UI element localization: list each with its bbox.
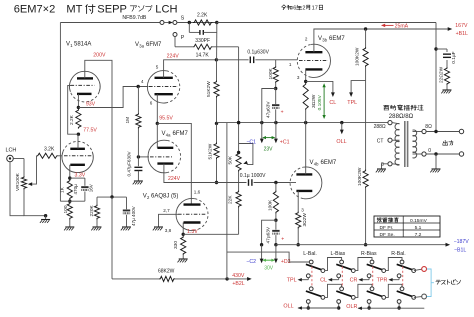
switch S3b contact R — [382, 296, 386, 300]
node C2 right rail junction — [274, 243, 277, 246]
input jack — [7, 155, 14, 162]
ground secondary — [430, 154, 440, 172]
ground VR — [40, 216, 50, 223]
wire bottom rail — [276, 244, 446, 246]
svg-text:51K2W: 51K2W — [207, 143, 213, 159]
cathode bar V2 — [184, 221, 201, 223]
node B+ 100K2W junction — [364, 27, 367, 30]
node V3b cathode junction — [304, 80, 307, 83]
C1 stub left — [260, 123, 264, 144]
svg-text:470µ: 470µ — [73, 184, 78, 195]
wire V4a plate up — [156, 123, 158, 147]
wire cathode node right (to V3a grid) — [78, 87, 148, 108]
grid V1 lower — [64, 155, 92, 157]
svg-text:430V: 430V — [232, 273, 245, 279]
plate bar V3a — [155, 77, 173, 79]
svg-text:8Ω: 8Ω — [425, 124, 432, 130]
svg-text:14.7K: 14.7K — [196, 53, 210, 59]
label 470u — [73, 184, 78, 195]
node secondary gnd junction — [434, 152, 437, 155]
svg-text:OLL: OLL — [336, 139, 346, 145]
switch S1b contact R — [321, 296, 325, 300]
wire B2 feed — [112, 197, 159, 279]
label -C2 — [246, 259, 256, 265]
switch S3a contact R — [382, 269, 386, 273]
svg-text:93V: 93V — [86, 101, 96, 107]
svg-text:LCH: LCH — [155, 3, 177, 15]
wire 8ohm to terminal — [426, 131, 459, 133]
svg-text:47µ 400V: 47µ 400V — [131, 205, 136, 226]
primary terminal CT — [388, 138, 400, 142]
svg-text:TPL: TPL — [347, 100, 357, 106]
svg-text:220K: 220K — [89, 204, 95, 216]
green arrow 30V — [262, 259, 275, 262]
label 0.105V — [317, 94, 323, 110]
switch S1a lever — [306, 264, 322, 270]
wire C1 L-wire — [262, 89, 276, 123]
switch S1b contact L — [309, 287, 313, 291]
svg-text:−C1: −C1 — [246, 139, 256, 145]
svg-text:22Ω2W: 22Ω2W — [439, 66, 445, 83]
table row2 — [380, 225, 422, 231]
label +B1L top — [456, 31, 468, 37]
wire test TPR — [392, 278, 400, 280]
label + cap2 — [281, 236, 284, 242]
gang dash col2 — [341, 267, 343, 289]
label CR — [350, 278, 358, 284]
C2 stub right — [274, 245, 278, 264]
wire V1u plate to 200V — [85, 60, 112, 197]
node NFB takeoff — [434, 130, 437, 133]
wire V4a cathode down to 224V line — [164, 164, 217, 183]
svg-text:77.5V: 77.5V — [83, 127, 97, 133]
node P-line rail junction — [237, 121, 240, 124]
label L-Bal. — [303, 251, 317, 257]
grid V4a — [150, 156, 172, 158]
label OLR — [346, 304, 357, 310]
output terminal lower — [459, 152, 463, 156]
wire V2 cathode down — [182, 223, 184, 235]
label 224V (V4a) — [168, 176, 181, 182]
switch S2 bottom contact — [337, 300, 341, 304]
table row1 — [377, 217, 427, 223]
svg-text:2.2K: 2.2K — [197, 12, 208, 18]
wire 100K2W mid — [365, 81, 367, 170]
NFB arrow — [169, 21, 173, 25]
label test pin — [436, 280, 461, 285]
resistor 2.2K (V1 cathode) — [69, 109, 81, 129]
svg-text:3: 3 — [297, 75, 300, 80]
wire bottom stem col1 — [307, 303, 309, 308]
ground 330 — [178, 255, 188, 262]
svg-text:0.105V: 0.105V — [317, 94, 323, 110]
svg-text:TPR: TPR — [377, 278, 388, 284]
wire NFB bus bottom — [60, 23, 85, 202]
wire cathode line right — [183, 233, 238, 235]
pin 5 V3a — [156, 64, 159, 69]
svg-text:P: P — [181, 35, 185, 41]
node NFB jack circle 1 — [160, 21, 164, 25]
resistor 100K2W lower — [357, 167, 368, 245]
wire S1b to S2b — [325, 284, 342, 297]
wire S3a to S4a — [386, 258, 402, 271]
tube V3a 6FM7 — [147, 71, 179, 103]
50K wiper — [239, 144, 253, 165]
switch S2 common contact — [337, 274, 341, 278]
node 1K bottom junction — [68, 200, 71, 203]
svg-text:2,7: 2,7 — [163, 208, 170, 213]
node C2 left rail junction — [260, 243, 263, 246]
svg-text:+B1L: +B1L — [456, 31, 468, 37]
gang dash col1 — [311, 267, 313, 289]
node VR ground junction — [44, 214, 47, 217]
tube V4a 6FM7 — [148, 140, 181, 173]
wire P to 14.7K — [175, 37, 193, 47]
wire 224V node to cap — [216, 59, 248, 61]
label primary 0 — [381, 162, 384, 168]
label -C1 — [246, 139, 256, 145]
label + cap1 — [281, 110, 284, 116]
capacitor 0.47uF630V — [134, 157, 142, 181]
node 95.5V midpoint — [156, 122, 159, 125]
svg-text:CT: CT — [377, 139, 384, 145]
capacitor 0.1u630V — [250, 57, 253, 64]
switch S2a contact R — [351, 269, 355, 273]
wire V1l plate up — [77, 134, 79, 149]
wire V4b cathode down — [297, 191, 299, 212]
title text — [14, 3, 178, 15]
label transformer note — [384, 105, 424, 111]
resistor 68K2W — [158, 269, 175, 282]
svg-text:5: 5 — [156, 64, 159, 69]
svg-text:6EM7×2: 6EM7×2 — [14, 3, 56, 15]
switch S3a contact L — [370, 260, 374, 264]
pin 6 V3a — [150, 100, 153, 105]
label OLL bottom — [283, 304, 293, 310]
label CT — [377, 139, 384, 145]
svg-text:0.1µF: 0.1µF — [451, 51, 457, 63]
plate bar V4b — [296, 173, 312, 175]
node rail x305 junction — [304, 121, 307, 124]
label V2 6AQ8J — [143, 194, 179, 201]
label output — [443, 140, 453, 145]
cathode bar V1 upper — [77, 93, 92, 95]
ground 0.47uF — [133, 181, 143, 184]
transformer secondary winding — [413, 130, 417, 158]
secondary 0 lead — [413, 153, 422, 155]
gang dash col4 — [402, 267, 404, 289]
wire 1M down to grid node — [137, 129, 139, 157]
svg-text:2: 2 — [302, 6, 305, 12]
wire 224V line right — [217, 182, 247, 184]
svg-text:50K: 50K — [228, 155, 234, 164]
secondary tap 0 — [422, 152, 426, 156]
svg-text:−C2: −C2 — [246, 259, 256, 265]
wire V4a grid left — [138, 156, 149, 158]
tube V3b 6EM7 — [297, 44, 330, 77]
node V4a grid junction — [137, 155, 140, 158]
pin 2 V3b — [305, 36, 308, 41]
svg-text:R-Bal.: R-Bal. — [391, 251, 405, 257]
capacitor 470u 16V — [81, 186, 88, 191]
svg-text:330: 330 — [173, 241, 179, 249]
pin 2,7 V2 — [163, 208, 170, 213]
svg-text:S: S — [181, 15, 185, 21]
label P — [181, 35, 185, 41]
wire parallel box left — [189, 23, 200, 33]
node bottom stem col2 — [337, 306, 340, 309]
resistor 14.7K — [193, 44, 213, 58]
svg-text:L-Bal.: L-Bal. — [303, 251, 317, 257]
ground zobel — [441, 90, 451, 93]
node V4b grid-leak junction — [274, 181, 277, 184]
svg-text:30V: 30V — [264, 266, 274, 272]
wire VR top lead — [23, 159, 25, 177]
wire OLL line — [298, 307, 339, 309]
table box — [374, 216, 440, 237]
TPL arrow — [349, 92, 353, 97]
label S — [181, 15, 185, 21]
switch S4a contact L — [400, 260, 404, 264]
primary terminal 288 — [388, 121, 400, 125]
capacitor 47u400V — [123, 197, 130, 226]
svg-text:224V: 224V — [167, 53, 180, 59]
plate bar V1 upper — [77, 77, 93, 79]
label R-Bal. — [391, 251, 405, 257]
svg-text:4b: 4b — [314, 162, 319, 167]
svg-text:SEPP: SEPP — [97, 3, 127, 15]
resistor 22K — [228, 191, 242, 208]
label +D2 — [281, 259, 291, 265]
svg-text:L-Bias: L-Bias — [331, 251, 346, 257]
node bottom stem col1 — [307, 306, 310, 309]
wire S1a to S2a — [325, 258, 342, 271]
svg-text:47µ63V: 47µ63V — [265, 101, 271, 118]
ground 220K — [91, 220, 101, 231]
resistor 100K (V4b grid) — [268, 183, 279, 221]
svg-text:0.47µF630V: 0.47µF630V — [126, 150, 131, 176]
label 1.3V — [187, 229, 198, 235]
switch S2b contact R — [351, 296, 355, 300]
transformer core — [405, 121, 408, 167]
cathode bar V3a — [155, 93, 173, 95]
svg-text:0: 0 — [428, 148, 431, 154]
svg-text:6AQ8J (5): 6AQ8J (5) — [151, 194, 178, 200]
node P circle — [173, 33, 177, 37]
label OLL — [336, 139, 346, 145]
node bottom stem col4 — [397, 306, 400, 309]
node zobel junction — [434, 47, 437, 50]
label NFB9.7dB — [122, 15, 146, 21]
wire S3b to S4b — [386, 284, 402, 297]
svg-text:−187V: −187V — [454, 239, 470, 245]
svg-text:6: 6 — [293, 6, 296, 12]
svg-text:CL: CL — [320, 278, 327, 284]
capacitor 47u63V no1 — [272, 89, 279, 123]
svg-text:100K: 100K — [268, 199, 274, 211]
svg-text:+: + — [281, 110, 284, 116]
date text — [282, 5, 323, 12]
node 100K bottom — [274, 87, 277, 90]
label 23V — [264, 146, 274, 152]
svg-text:25mA: 25mA — [395, 24, 409, 30]
svg-text:6EM7: 6EM7 — [321, 160, 337, 166]
node V1u cathode 93V — [77, 106, 80, 109]
pin 1,6 V2 — [194, 190, 201, 195]
resistor 51K2W upper — [206, 60, 219, 124]
switch S3b contact L — [370, 287, 374, 291]
wire 470u bottom — [84, 192, 86, 202]
resistor 22ohm2W — [439, 66, 450, 89]
OLL arrow — [340, 123, 344, 135]
capacitor 0.1uF zobel — [443, 54, 451, 67]
svg-text:100K: 100K — [268, 67, 274, 79]
svg-text:3a: 3a — [139, 44, 144, 49]
wire row1 to test terminal — [414, 269, 422, 270]
ground 47u400V — [121, 227, 131, 230]
plate bar V2 — [184, 203, 201, 205]
label -B1L — [454, 248, 466, 254]
label TPL — [287, 278, 297, 284]
table row3 — [380, 232, 422, 238]
label 288ohm — [374, 124, 386, 130]
label 167V — [455, 23, 468, 29]
label CL — [329, 100, 336, 106]
label V4b 6EM7 — [310, 160, 337, 167]
switch S4a contact R — [412, 269, 416, 273]
cathode bar V4a — [157, 162, 173, 164]
svg-text:95.5V: 95.5V — [159, 116, 173, 122]
label 0.1u630V — [247, 50, 269, 56]
pin 3,8 V2 — [165, 228, 172, 233]
label 0.47uF630V — [126, 150, 131, 176]
svg-text:3,8: 3,8 — [165, 228, 172, 233]
svg-text:NFB9.7dB: NFB9.7dB — [122, 15, 146, 21]
label 3.3V — [75, 172, 86, 178]
label R-Bias — [361, 251, 377, 257]
primary terminal 0 — [388, 162, 400, 166]
wire cathode node to 470u — [70, 178, 85, 186]
green arrow 23V — [262, 136, 275, 139]
grid V3b — [299, 60, 328, 62]
label V3a 6FM7 — [135, 42, 162, 49]
grid V3a — [149, 86, 178, 88]
svg-text:288Ω/8Ω: 288Ω/8Ω — [389, 113, 414, 120]
svg-text:6EM7: 6EM7 — [329, 36, 345, 42]
wire TPL tap — [351, 81, 366, 94]
wire pot to 22K — [238, 172, 240, 191]
svg-text:68K2W: 68K2W — [158, 269, 175, 275]
svg-text:3.2K: 3.2K — [44, 147, 55, 153]
wire V3b cathode down — [305, 69, 307, 81]
label 47u63V no2 — [266, 226, 272, 243]
OLR line arrow — [358, 306, 362, 310]
25mA annotation — [381, 24, 409, 30]
wire bottom stem col3 — [368, 303, 370, 308]
svg-text:6: 6 — [150, 100, 153, 105]
wire V1u grid left-down — [68, 85, 79, 134]
svg-text:16V: 16V — [89, 183, 94, 192]
pin 4 V3a — [141, 79, 144, 84]
node 100K no2 bottom — [274, 219, 277, 222]
svg-text:4a: 4a — [166, 133, 171, 138]
switch S3a lever — [367, 264, 383, 270]
CL arrow — [331, 92, 335, 97]
switch S3 common contact — [367, 274, 371, 278]
node 3.3V cathode — [68, 176, 71, 179]
wire CL tap — [306, 81, 333, 93]
svg-text:0.1µ 1000V: 0.1µ 1000V — [240, 173, 266, 179]
label TPR — [377, 278, 388, 284]
svg-text:6FM7: 6FM7 — [173, 131, 189, 137]
grid V1 upper — [71, 84, 95, 86]
plate bar V3b — [305, 51, 322, 53]
plate bar V1 lower — [70, 148, 85, 150]
svg-text:VR100K: VR100K — [15, 172, 21, 191]
wire rail to pot — [238, 123, 240, 153]
svg-text:0.15mV: 0.15mV — [410, 218, 428, 224]
node 224V junction — [215, 58, 218, 61]
node V4b cathode rail junction — [297, 243, 300, 246]
wire 0 to terminal — [426, 153, 459, 155]
bottom rail arrow — [446, 243, 451, 247]
svg-text:1,6: 1,6 — [194, 190, 201, 195]
svg-text:5.1: 5.1 — [415, 225, 422, 231]
label 47u400V — [131, 205, 136, 226]
svg-text:6FM7: 6FM7 — [146, 42, 162, 48]
label LCH — [6, 147, 17, 153]
resistor 220K — [89, 197, 100, 219]
wire V1u cathode down — [77, 94, 79, 108]
B2 arrow — [247, 277, 252, 281]
wire 22K bottom to cathode line — [238, 208, 240, 235]
svg-text:+: + — [281, 236, 284, 242]
switch S1a contact L — [309, 260, 313, 264]
wire B2 riser — [226, 123, 228, 279]
wire NFB node down — [216, 32, 218, 59]
ground V1 cathode — [64, 220, 74, 231]
potentiometer VR100K — [15, 172, 27, 191]
svg-text:167V: 167V — [455, 23, 468, 29]
wire NFB down right side — [435, 23, 437, 132]
label 95.5V — [159, 116, 173, 122]
cathode bar V3b — [305, 68, 322, 70]
switch S2b contact L — [340, 287, 344, 291]
wire row2 to test terminal — [414, 296, 422, 299]
label CL — [320, 278, 327, 284]
capacitor 47u63V no2 — [272, 220, 279, 245]
arrow CR — [358, 278, 362, 282]
svg-text:CR: CR — [350, 278, 358, 284]
pin 3 V3b — [297, 75, 300, 80]
svg-text:2.2K: 2.2K — [69, 114, 75, 125]
svg-text:100: 100 — [63, 205, 69, 213]
potentiometer 50K — [228, 153, 242, 172]
svg-text:3b: 3b — [322, 38, 327, 43]
switch S4b lever — [397, 291, 413, 297]
tube V1 lower triode (5814A) — [62, 141, 93, 172]
svg-text:330PF: 330PF — [195, 38, 210, 44]
wire 3.2K to grid — [58, 155, 62, 157]
wire test CL — [331, 278, 339, 280]
capacitor 330PF — [200, 30, 203, 35]
label 224V (V3a) — [167, 53, 180, 59]
node junction left of 2.2K — [188, 21, 191, 24]
transformer primary winding — [395, 124, 399, 166]
node 1M top junction — [137, 85, 140, 88]
resistor 3ohm2W lower — [296, 212, 309, 245]
svg-text:TPL: TPL — [287, 278, 297, 284]
